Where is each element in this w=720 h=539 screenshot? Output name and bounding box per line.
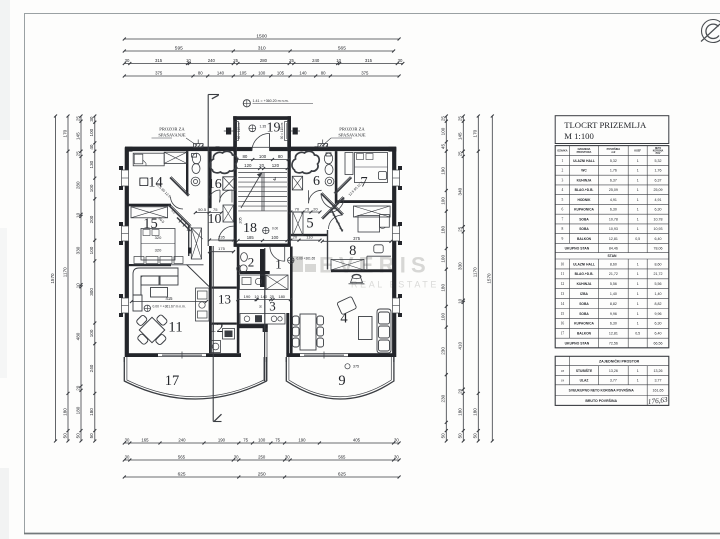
svg-text:4,91: 4,91 [655,198,662,202]
svg-text:240: 240 [178,437,186,442]
svg-text:230: 230 [441,394,446,402]
svg-text:21,72: 21,72 [654,272,663,276]
svg-text:75: 75 [213,207,218,212]
svg-text:1: 1 [275,257,282,272]
svg-text:565: 565 [338,45,346,51]
svg-text:6,40: 6,40 [655,332,662,336]
svg-text:50: 50 [441,433,446,439]
svg-text:5,56: 5,56 [655,282,662,286]
svg-text:6,30: 6,30 [610,322,617,326]
svg-text:240: 240 [208,58,216,63]
svg-text:30: 30 [394,437,399,442]
svg-text:190: 190 [218,437,226,442]
svg-text:100: 100 [271,235,279,240]
svg-text:140: 140 [299,70,307,75]
svg-text:100: 100 [258,70,266,75]
svg-text:0,5: 0,5 [635,332,640,336]
svg-text:230: 230 [441,347,446,355]
svg-text:50: 50 [458,433,463,439]
svg-text:80: 80 [198,70,203,75]
svg-text:SOBA: SOBA [579,217,589,221]
svg-text:10: 10 [208,212,222,227]
svg-text:145: 145 [75,132,80,140]
svg-text:565: 565 [338,454,346,459]
svg-text:100: 100 [441,127,446,135]
svg-text:6: 6 [562,208,564,212]
svg-text:BRUTO POVRŠINA: BRUTO POVRŠINA [585,398,617,403]
svg-text:7: 7 [562,217,564,221]
svg-text:BALKON: BALKON [577,237,592,241]
svg-text:180: 180 [441,284,446,292]
svg-text:SOBA: SOBA [579,312,589,316]
svg-text:100: 100 [89,329,94,337]
svg-text:21,72: 21,72 [609,272,618,276]
svg-text:625: 625 [178,471,186,477]
svg-text:9: 9 [562,237,564,241]
svg-text:66,56: 66,56 [654,341,663,345]
svg-text:13,26: 13,26 [654,369,663,373]
svg-text:100: 100 [89,128,94,136]
svg-text:375: 375 [155,70,163,75]
svg-text:45: 45 [441,144,446,150]
svg-text:10: 10 [254,294,259,299]
svg-text:ZAJEDNIČKI PROSTOR: ZAJEDNIČKI PROSTOR [599,359,640,364]
svg-text:1570: 1570 [487,273,492,284]
svg-text:25: 25 [270,294,275,299]
svg-text:1170: 1170 [473,267,478,277]
svg-text:375: 375 [353,236,361,241]
svg-text:8,82: 8,82 [610,302,617,306]
svg-text:340: 340 [458,187,463,195]
svg-text:KUHINJA: KUHINJA [577,178,592,182]
svg-text:280: 280 [75,181,80,189]
svg-text:12: 12 [210,321,224,336]
svg-text:4: 4 [273,176,276,183]
svg-text:30: 30 [125,437,130,442]
svg-text:13: 13 [218,292,231,307]
svg-text:120: 120 [244,163,252,168]
svg-text:185: 185 [247,235,255,240]
svg-text:180: 180 [62,408,67,416]
svg-text:10: 10 [561,262,565,266]
svg-text:SOBA: SOBA [579,227,589,231]
svg-text:PROSTORA: PROSTORA [577,150,592,154]
svg-text:25: 25 [441,116,446,122]
svg-text:235: 235 [218,235,225,240]
svg-text:ULAZNI HALL: ULAZNI HALL [573,159,595,163]
svg-text:300: 300 [89,288,94,296]
svg-text:205: 205 [239,217,243,223]
svg-text:595: 595 [175,45,183,51]
svg-text:90 = 110cm: 90 = 110cm [237,122,241,139]
svg-text:SVEUKUPNO NETO KORISNA POVRŠIN: SVEUKUPNO NETO KORISNA POVRŠINA [569,387,635,392]
svg-text:1: 1 [637,227,639,231]
svg-text:140: 140 [217,70,225,75]
svg-text:1: 1 [637,188,639,192]
svg-text:KUPAONICA: KUPAONICA [574,208,594,212]
svg-text:330: 330 [75,246,80,254]
svg-text:2: 2 [562,169,564,173]
svg-text:180: 180 [278,294,285,299]
svg-text:PROZOR ZA: PROZOR ZA [339,127,365,132]
svg-text:1.41 = +360.20 m n.m.: 1.41 = +360.20 m n.m. [253,99,289,103]
svg-text:1: 1 [637,322,639,326]
svg-text:20: 20 [458,388,463,394]
svg-text:200: 200 [89,215,94,223]
svg-text:90 = 110cm: 90 = 110cm [280,122,284,139]
svg-text:TLOCRT PRIZEMLJA: TLOCRT PRIZEMLJA [564,120,647,130]
svg-text:25,09: 25,09 [654,188,663,192]
svg-text:PROZOR ZA: PROZOR ZA [159,127,185,132]
svg-text:480: 480 [75,332,80,340]
svg-text:1,40: 1,40 [610,292,617,296]
svg-text:12,81: 12,81 [609,237,618,241]
svg-text:30: 30 [125,454,130,459]
svg-text:1: 1 [637,379,639,383]
svg-text:565: 565 [178,454,186,459]
svg-text:6,30: 6,30 [655,208,662,212]
svg-text:100: 100 [258,437,266,442]
svg-text:84,46: 84,46 [609,246,618,250]
svg-text:13,26: 13,26 [609,369,618,373]
svg-text:KORISNA: KORISNA [653,150,664,153]
svg-text:70: 70 [295,207,300,212]
svg-text:SOBA: SOBA [579,302,589,306]
svg-text:40: 40 [89,144,94,150]
svg-text:BLAG.+D.B.: BLAG.+D.B. [575,188,594,192]
svg-text:20: 20 [75,385,80,391]
svg-text:1: 1 [637,169,639,173]
svg-text:2: 2 [248,255,255,270]
svg-text:OZNAKA: OZNAKA [557,150,567,153]
svg-text:105: 105 [239,70,247,75]
svg-text:72,56: 72,56 [609,341,618,345]
svg-text:STAN: STAN [608,254,618,258]
svg-text:20: 20 [313,207,318,212]
svg-text:8: 8 [562,227,564,231]
svg-text:30: 30 [285,454,290,459]
svg-text:50: 50 [473,433,478,439]
svg-text:1,76: 1,76 [610,169,617,173]
svg-text:10: 10 [75,283,80,289]
svg-text:175: 175 [218,246,225,251]
svg-text:14: 14 [561,302,565,306]
svg-text:240: 240 [89,364,94,372]
svg-text:KOEF: KOEF [634,150,641,153]
svg-text:50: 50 [89,433,94,439]
svg-text:1: 1 [637,159,639,163]
svg-text:9,96: 9,96 [610,312,617,316]
svg-text:13: 13 [561,292,565,296]
svg-text:80: 80 [321,70,326,75]
svg-text:10,93: 10,93 [654,227,663,231]
svg-text:180: 180 [458,408,463,416]
svg-text:310: 310 [258,45,266,51]
svg-text:5,32: 5,32 [655,159,662,163]
svg-text:25: 25 [233,58,238,63]
svg-text:5: 5 [306,216,313,232]
svg-text:SPAŠAVANJE: SPAŠAVANJE [158,133,185,138]
svg-text:1: 1 [637,292,639,296]
svg-text:1: 1 [637,262,639,266]
svg-text:17: 17 [165,373,180,389]
svg-text:11: 11 [561,272,565,276]
svg-text:1: 1 [637,272,639,276]
svg-text:100: 100 [441,197,446,205]
svg-text:315: 315 [155,58,163,63]
svg-text:1: 1 [637,282,639,286]
svg-text:250: 250 [258,471,266,477]
svg-text:10,78: 10,78 [609,217,618,221]
svg-text:25: 25 [75,116,80,122]
svg-text:78,06: 78,06 [654,246,663,250]
svg-text:16: 16 [561,322,565,326]
svg-text:15: 15 [561,312,565,316]
svg-text:8,60: 8,60 [610,262,617,266]
svg-text:1: 1 [637,312,639,316]
svg-text:1: 1 [637,217,639,221]
svg-text:50: 50 [75,433,80,439]
svg-text:100: 100 [89,246,94,254]
svg-text:100: 100 [259,154,267,159]
svg-text:190: 190 [298,437,306,442]
svg-text:75: 75 [275,437,280,442]
svg-text:SPAŠAVANJE: SPAŠAVANJE [338,133,365,138]
svg-text:10: 10 [336,58,341,63]
svg-text:170: 170 [473,129,478,137]
svg-text:1,40: 1,40 [655,292,662,296]
svg-text:IZBA: IZBA [580,292,588,296]
svg-text:75: 75 [243,437,248,442]
svg-text:m2: m2 [612,150,616,154]
svg-text:1.35: 1.35 [260,125,267,129]
svg-text:6,37: 6,37 [610,178,617,182]
svg-text:1570: 1570 [50,273,55,284]
svg-text:6,40: 6,40 [655,237,662,241]
svg-text:25: 25 [458,226,463,232]
svg-text:120: 120 [272,163,280,168]
svg-text:25: 25 [458,116,463,122]
svg-text:KUHINJA: KUHINJA [577,282,592,286]
svg-text:130: 130 [89,160,94,168]
svg-text:9,96: 9,96 [655,312,662,316]
svg-text:0.00 = +361.67 m n.m.: 0.00 = +361.67 m n.m. [153,305,186,309]
svg-text:6: 6 [313,174,320,189]
svg-text:50.5: 50.5 [198,207,207,212]
svg-text:10,93: 10,93 [609,227,618,231]
svg-text:375: 375 [361,70,369,75]
svg-text:5,32: 5,32 [610,159,617,163]
svg-text:161,65: 161,65 [653,388,664,392]
svg-text:320: 320 [155,248,162,253]
svg-text:20: 20 [259,163,264,168]
svg-text:240: 240 [312,58,320,63]
svg-text:0.00: 0.00 [272,227,278,231]
svg-text:ULAZNI HALL: ULAZNI HALL [573,262,595,266]
svg-text:190: 190 [441,167,446,175]
svg-text:30: 30 [398,58,403,63]
svg-text:8,60: 8,60 [655,262,662,266]
svg-text:18: 18 [561,369,565,373]
svg-text:4: 4 [562,188,564,192]
svg-text:ULAZ: ULAZ [580,379,589,383]
svg-text:10: 10 [458,298,463,304]
svg-text:1: 1 [637,198,639,202]
svg-text:1: 1 [637,302,639,306]
svg-text:0.00 +361.65: 0.00 +361.65 [297,257,316,261]
svg-text:UKUPNO STAN: UKUPNO STAN [565,341,590,345]
svg-text:5,56: 5,56 [610,282,617,286]
svg-text:BALKON: BALKON [577,332,592,336]
svg-text:100: 100 [441,255,446,263]
svg-text:0,5: 0,5 [635,237,640,241]
svg-text:75: 75 [305,207,310,212]
svg-text:6,30: 6,30 [655,322,662,326]
svg-text:M 1:100: M 1:100 [564,131,594,141]
svg-text:25: 25 [289,58,294,63]
svg-text:30: 30 [89,116,94,122]
svg-text:80: 80 [242,154,247,159]
svg-text:105: 105 [277,70,285,75]
svg-text:80: 80 [278,154,283,159]
svg-text:315: 315 [365,58,373,63]
svg-text:100: 100 [89,184,94,192]
svg-text:25,09: 25,09 [609,188,618,192]
svg-text:25: 25 [75,151,80,157]
svg-text:HODNIK: HODNIK [577,198,591,202]
svg-text:17: 17 [561,332,565,336]
svg-text:320: 320 [155,235,162,240]
svg-text:8: 8 [349,243,356,259]
svg-text:1: 1 [637,178,639,182]
svg-text:BLAG.+D.B.: BLAG.+D.B. [575,272,594,276]
svg-text:190: 190 [244,294,251,299]
svg-text:STUBIŠTE: STUBIŠTE [576,368,593,373]
svg-text:375: 375 [353,365,359,369]
svg-text:100: 100 [441,313,446,321]
svg-text:1: 1 [637,208,639,212]
svg-text:10,78: 10,78 [654,217,663,221]
svg-text:19: 19 [561,379,565,383]
svg-text:180: 180 [89,408,94,416]
svg-text:170: 170 [62,129,67,137]
svg-text:12,81: 12,81 [609,332,618,336]
svg-text:30: 30 [234,454,239,459]
svg-text:330: 330 [458,262,463,270]
svg-text:18: 18 [243,221,257,236]
svg-text:110: 110 [306,235,313,240]
svg-text:30: 30 [125,58,130,63]
svg-text:UKUPNO STAN: UKUPNO STAN [565,246,590,250]
svg-text:180: 180 [473,408,478,416]
svg-text:180: 180 [441,226,446,234]
svg-text:1: 1 [562,159,564,163]
svg-text:19: 19 [267,121,281,136]
svg-text:180: 180 [75,406,80,414]
svg-text:250: 250 [258,454,266,459]
svg-text:625: 625 [338,471,346,477]
svg-text:405: 405 [353,437,361,442]
svg-text:WC: WC [581,169,587,173]
svg-text:50: 50 [62,433,67,439]
svg-text:50: 50 [259,305,263,309]
svg-text:140: 140 [261,294,268,299]
svg-text:6,30: 6,30 [610,208,617,212]
svg-text:8,82: 8,82 [655,302,662,306]
svg-text:280: 280 [260,58,268,63]
svg-text:1: 1 [637,369,639,373]
svg-text:3: 3 [562,178,564,182]
svg-text:6,37: 6,37 [655,178,662,182]
svg-text:1170: 1170 [62,267,67,277]
svg-text:12: 12 [561,282,565,286]
svg-text:30: 30 [394,454,399,459]
svg-text:165: 165 [141,437,149,442]
svg-text:3,77: 3,77 [610,379,617,383]
svg-text:10: 10 [186,58,191,63]
svg-text:1500: 1500 [256,33,267,39]
svg-text:9: 9 [338,373,345,389]
svg-text:POV: POV [656,153,661,155]
svg-text:145: 145 [458,132,463,140]
svg-text:11: 11 [168,320,182,336]
svg-text:415: 415 [166,296,174,301]
svg-text:25: 25 [458,151,463,157]
svg-text:4,91: 4,91 [610,198,617,202]
svg-text:1,76: 1,76 [655,169,662,173]
svg-text:KUPAONICA: KUPAONICA [574,322,594,326]
svg-text:410: 410 [458,342,463,350]
svg-text:5: 5 [562,198,564,202]
svg-text:3,77: 3,77 [655,379,662,383]
svg-text:10: 10 [75,212,80,218]
